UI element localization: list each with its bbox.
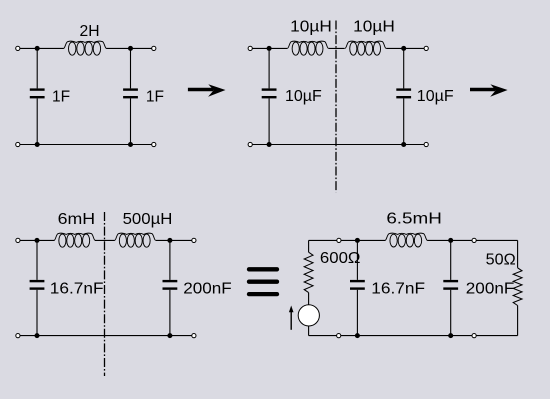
inductor L 2H — [64, 41, 107, 48]
svg-text:200nF: 200nF — [183, 279, 231, 297]
svg-text:1F: 1F — [52, 88, 70, 105]
capacitor 16.7nF — [30, 280, 45, 282]
dividing dash-dot line circuit 2 — [335, 21, 337, 193]
circuit 4: second middle branch wire (200nF) — [450, 240, 452, 280]
inductor 500uH — [115, 233, 156, 240]
circuit 3: left branch wire — [36, 240, 38, 280]
inductor 6.5mH — [385, 233, 428, 240]
capacitor C 1F (right) — [123, 88, 138, 90]
resistor 600 ohm — [304, 252, 313, 292]
circuit 3: top wire — [18, 239, 55, 241]
dividing dash-dot line circuit 3 — [104, 212, 106, 376]
wire resistor to source — [308, 293, 310, 306]
junction dots circuit 2 — [267, 46, 272, 51]
inductor 10uH (right) — [345, 41, 386, 48]
svg-text:600Ω: 600Ω — [320, 249, 361, 267]
circuit 4: middle branch wire (16.7nF) — [356, 240, 358, 280]
svg-text:10µH: 10µH — [353, 17, 395, 35]
junction dots circuit 3 — [35, 238, 40, 243]
svg-text:6mH: 6mH — [58, 210, 95, 228]
circuit 4: left branch wire top — [308, 240, 310, 252]
circuit 2: bottom wire — [250, 144, 426, 146]
arrow (transform step 2) — [470, 88, 496, 91]
inductor 6mH — [54, 233, 95, 240]
wire resistor to bottom — [517, 306, 519, 336]
circuit 4: top wire — [309, 239, 385, 241]
svg-text:6.5mH: 6.5mH — [386, 209, 442, 227]
circuit 1: left branch wire — [36, 48, 38, 88]
circuit 4: bottom wire — [309, 335, 518, 337]
circuit 3: right branch wire — [169, 240, 171, 280]
resistor 50 ohm — [513, 268, 522, 306]
capacitor 16.7nF (circuit 4) — [350, 280, 365, 282]
open terminals circuit 2 — [248, 46, 252, 50]
circuit 3: bottom wire — [18, 335, 194, 337]
svg-text:10µF: 10µF — [285, 88, 322, 105]
arrow (transform step 1) — [188, 88, 214, 91]
circuit 1: bottom wire — [18, 144, 154, 146]
open terminals circuit 4 — [337, 238, 341, 242]
current source I1 — [298, 305, 319, 326]
svg-text:500µH: 500µH — [123, 211, 173, 229]
capacitor 200nF (circuit 4) — [443, 280, 458, 282]
capacitor 10uF (left) — [262, 88, 277, 90]
svg-text:10µH: 10µH — [290, 17, 332, 35]
junction dots circuit 1 — [35, 46, 40, 51]
open terminals circuit 3 — [16, 238, 20, 242]
circuit 2: left branch wire — [268, 48, 270, 88]
wire source to bottom — [308, 326, 310, 336]
capacitor 10uF (right) — [396, 88, 411, 90]
open terminals circuit 1 — [16, 46, 20, 50]
circuit 2: right branch wire — [403, 48, 405, 88]
svg-text:10µF: 10µF — [417, 88, 454, 105]
junction dots circuit 4 — [355, 238, 360, 243]
circuit 1: right branch wire — [130, 48, 132, 88]
svg-text:200nF: 200nF — [466, 279, 514, 297]
svg-text:2H: 2H — [79, 23, 99, 40]
equivalence symbol — [249, 267, 277, 271]
svg-text:1F: 1F — [146, 88, 164, 105]
svg-text:16.7nF: 16.7nF — [371, 279, 425, 297]
capacitor C 1F (left) — [30, 88, 45, 90]
current source arrow — [290, 311, 292, 330]
circuit 4: right branch wire top — [517, 240, 519, 267]
svg-text:16.7nF: 16.7nF — [50, 279, 104, 297]
capacitor 200nF (circuit 3) — [163, 280, 178, 282]
svg-text:50Ω: 50Ω — [486, 250, 516, 268]
circuit 1: top wire — [18, 47, 64, 49]
circuit 2: top wire — [250, 47, 287, 49]
inductor 10uH (left) — [287, 41, 328, 48]
